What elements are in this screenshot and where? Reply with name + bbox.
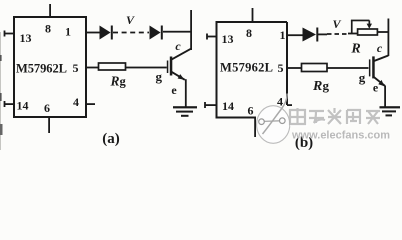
scan smudge left edge bbox=[0, 55, 2, 61]
svg-text:M57962L: M57962L bbox=[16, 62, 67, 76]
diode V (left) bbox=[100, 26, 111, 40]
wire resistor to gate bbox=[126, 67, 167, 69]
svg-text:R: R bbox=[110, 74, 120, 89]
op-amp U1 : hybrid driver IC M57962L box bbox=[14, 17, 86, 117]
resistor Rg (b) bbox=[302, 64, 328, 72]
wire pin8 stub (b) bbox=[252, 8, 254, 22]
wire resistor to gate (b) bbox=[327, 67, 369, 69]
wire diode to dashes (b) bbox=[318, 34, 327, 36]
wire collector vertical bbox=[190, 10, 192, 50]
svg-text:13: 13 bbox=[20, 31, 32, 45]
svg-text:(a): (a) bbox=[102, 131, 120, 147]
wire pin6 stub bbox=[48, 117, 50, 133]
rheostat arrow riser bbox=[351, 20, 353, 33]
svg-text:c: c bbox=[377, 41, 383, 55]
wire pin8 stub bbox=[49, 4, 51, 17]
svg-text:g: g bbox=[120, 75, 127, 89]
svg-text:e: e bbox=[171, 83, 177, 97]
svg-text:R: R bbox=[350, 42, 360, 57]
wire pin1 to diode bbox=[86, 32, 100, 34]
wire pin5 to resistor (b) bbox=[287, 67, 302, 69]
node tick pin14 (b) bbox=[204, 102, 206, 108]
node tick pin13 bbox=[4, 31, 6, 37]
svg-text:14: 14 bbox=[222, 99, 234, 113]
node tick pin13 (b) bbox=[206, 34, 208, 40]
ground (a) bbox=[173, 106, 197, 108]
svg-text:5: 5 bbox=[73, 61, 79, 75]
watermark logo connector bar bbox=[264, 120, 279, 123]
svg-text:1: 1 bbox=[65, 24, 71, 38]
wire pin14 stub bbox=[4, 103, 14, 105]
wire pin1 to diode (b) bbox=[287, 34, 303, 36]
wire pin13 stub bbox=[4, 33, 14, 35]
svg-text:8: 8 bbox=[246, 26, 252, 40]
node tick pin14 bbox=[4, 101, 6, 107]
transistor Q1 body bar bbox=[170, 57, 173, 76]
wire resistor R to collector (b) bbox=[377, 31, 388, 33]
watermark logo circle bbox=[257, 106, 290, 144]
svg-text:V: V bbox=[332, 17, 341, 31]
svg-text:c: c bbox=[175, 39, 181, 53]
svg-text:www.elecfans.com: www.elecfans.com bbox=[291, 130, 390, 142]
wire diode to collector node bbox=[163, 31, 191, 33]
op-amp U2 : hybrid driver IC M57962L box bbox=[217, 22, 288, 118]
svg-text:M57962L: M57962L bbox=[220, 61, 273, 75]
transistor Q1 gate bar bbox=[167, 61, 169, 74]
watermark text line 1 (hanzi shapes) bbox=[291, 109, 381, 125]
svg-text:V: V bbox=[126, 13, 135, 27]
svg-text:6: 6 bbox=[248, 104, 254, 118]
svg-text:R: R bbox=[312, 79, 322, 94]
svg-text:e: e bbox=[373, 81, 379, 95]
resistor R (b) bbox=[358, 29, 378, 35]
wire pin5 to resistor bbox=[86, 67, 99, 69]
svg-text:1: 1 bbox=[280, 28, 286, 42]
wire pin13 stub (b) bbox=[207, 36, 217, 38]
wire emitter vertical bbox=[185, 79, 187, 107]
svg-text:14: 14 bbox=[17, 99, 29, 113]
transistor Q1 emitter lead with arrow bbox=[172, 72, 185, 80]
transistor Q2 body bar bbox=[372, 56, 375, 78]
watermark logo small circle 2 bbox=[280, 118, 286, 124]
wire pin4 stub bbox=[86, 103, 95, 105]
transistor Q2 emitter lead with arrow bbox=[374, 77, 385, 86]
svg-text:8: 8 bbox=[45, 22, 51, 36]
wire collector vertical (b) bbox=[388, 19, 390, 57]
scan smudge left edge line bbox=[0, 32, 1, 150]
watermark logo slash blade bbox=[263, 94, 288, 135]
wire pin4 stub (b) bbox=[287, 104, 292, 106]
wire dashes to rheostat (b) bbox=[348, 33, 358, 35]
transistor Q2 gate bar bbox=[369, 59, 371, 76]
ground (b) bbox=[380, 106, 401, 108]
svg-text:g: g bbox=[359, 70, 366, 85]
watermark logo small circle 1 bbox=[259, 119, 265, 125]
diode V (right) bbox=[150, 26, 161, 40]
svg-text:4: 4 bbox=[73, 95, 79, 109]
wire dashed between diodes bbox=[113, 32, 149, 34]
wire pin6 stub (b) bbox=[254, 118, 256, 138]
svg-text:5: 5 bbox=[278, 61, 284, 75]
svg-text:6: 6 bbox=[44, 101, 50, 115]
transistor Q1 collector lead bbox=[171, 49, 191, 60]
diode V (b) bbox=[303, 28, 317, 42]
svg-text:13: 13 bbox=[222, 32, 234, 46]
wire dashed (b) bbox=[327, 33, 348, 35]
rheostat arrow head bbox=[369, 20, 371, 25]
wire pin14 stub (b) bbox=[205, 104, 217, 106]
svg-text:g: g bbox=[156, 69, 163, 84]
resistor Rg (a) bbox=[99, 63, 126, 70]
rheostat arrow top bbox=[351, 20, 370, 22]
transistor Q2 collector lead bbox=[373, 56, 388, 62]
svg-text:g: g bbox=[323, 78, 330, 93]
wire emitter vertical (b) bbox=[384, 86, 386, 108]
